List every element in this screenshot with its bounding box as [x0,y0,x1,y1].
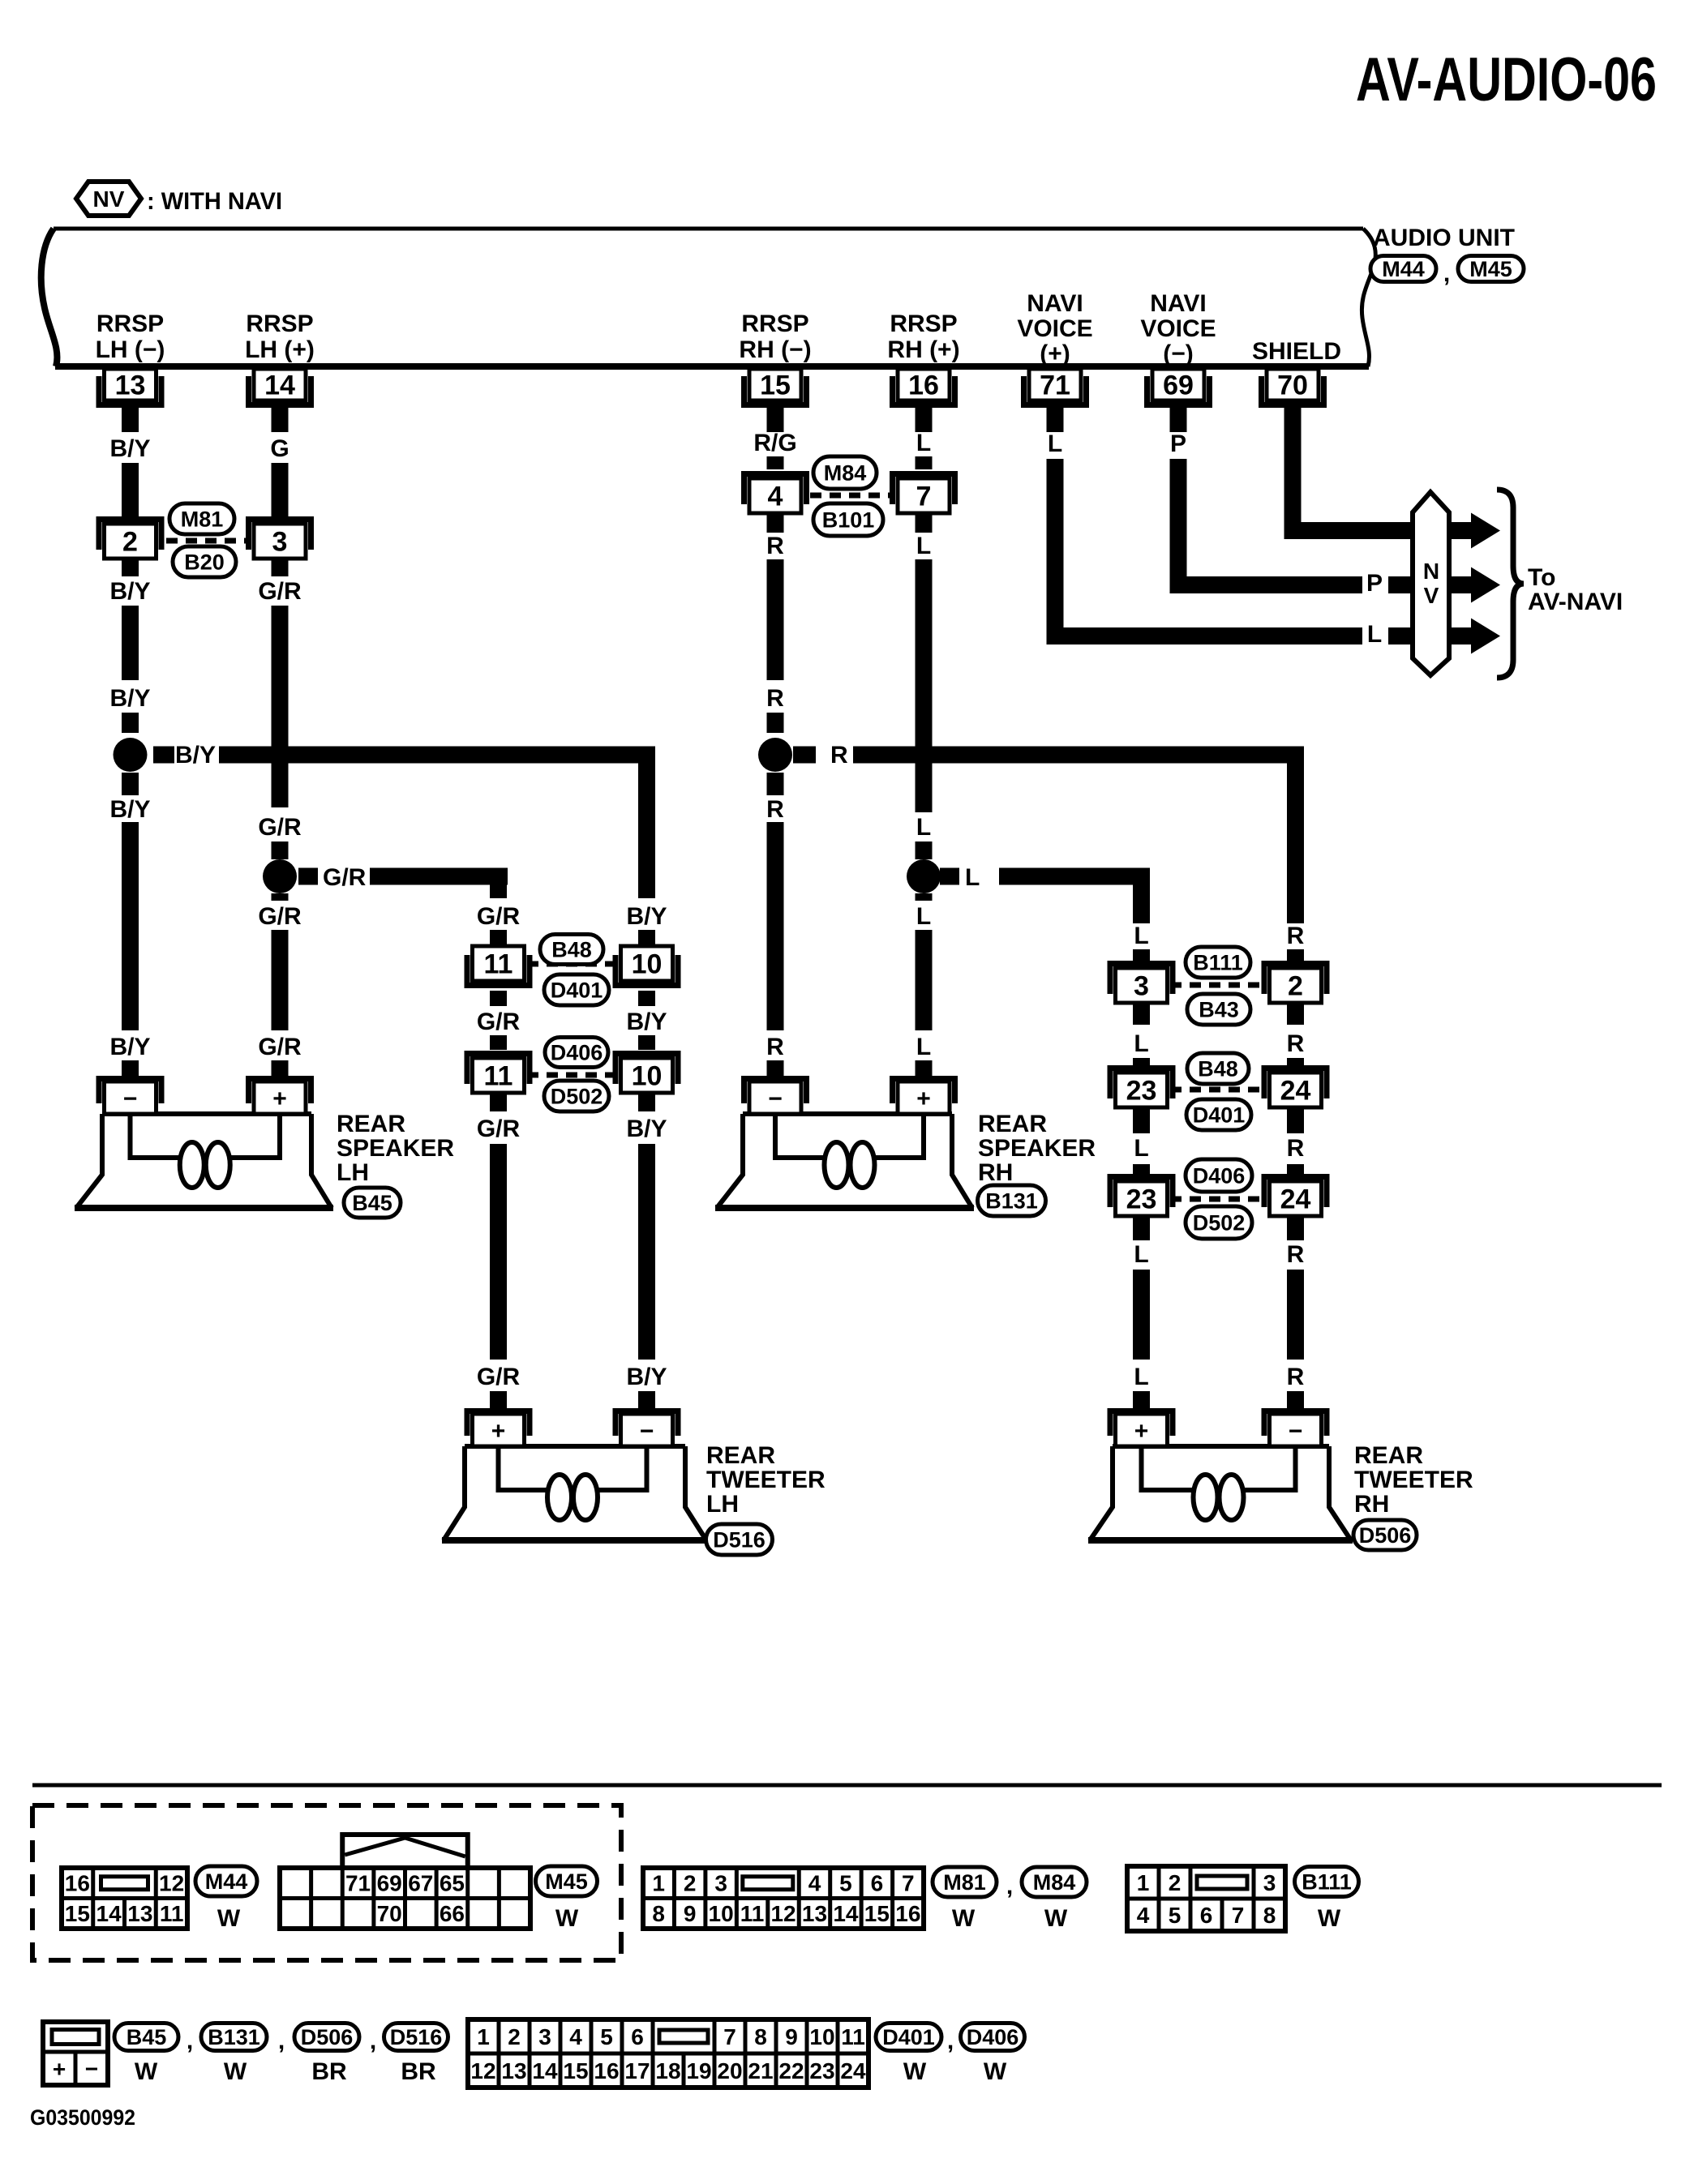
svg-text:70: 70 [1277,370,1308,401]
svg-text:2: 2 [122,527,138,558]
svg-text:24: 24 [840,2058,866,2083]
svg-text:TWEETER: TWEETER [1354,1467,1473,1493]
connector terminal 2 (B111/B43) [1262,961,1330,1003]
svg-text:D506: D506 [1359,1523,1412,1548]
svg-text:L: L [1134,1030,1148,1057]
junction node G/R [263,859,297,893]
svg-text:W: W [1044,1905,1068,1932]
comma between M81 M84 [1006,1873,1013,1899]
wire P stub into NV [1388,576,1416,593]
svg-text:W: W [984,2058,1007,2085]
wire L segment 8 [916,1060,933,1076]
svg-text:−: − [1289,1418,1303,1445]
wire B/Y conn2 segment 3 [122,559,139,576]
label BR (D516) [401,2058,436,2085]
label L [916,430,931,456]
svg-text:11: 11 [484,1061,513,1092]
wire B/Y segment 7 [122,822,139,1030]
wire B/Y pin13 segment 2 [122,463,139,516]
wire R below conn 24 lower [1287,1216,1304,1240]
wire B/Y branch horizontal [219,747,655,899]
svg-text:L: L [916,1034,931,1060]
svg-text:2: 2 [508,2024,521,2049]
label B/Y [109,685,150,712]
wire G pin14 segment 2 [272,463,289,516]
label W (B111) [1318,1905,1341,1932]
label R [766,533,784,559]
svg-text:G03500992: G03500992 [30,2105,135,2130]
connector label B131 legend [201,2023,267,2051]
svg-text:D401: D401 [1193,1103,1246,1128]
svg-text:2: 2 [1169,1870,1182,1895]
wire R segment 7 [767,822,784,1030]
arrow to AV-NAVI (shield) [1449,513,1500,549]
label G/R [258,1034,302,1060]
svg-text:B/Y: B/Y [626,1116,667,1142]
svg-text:B/Y: B/Y [175,742,216,769]
wire B/Y between connectors [638,991,655,1006]
wire B/Y segment 8 [122,1060,139,1076]
junction node B/Y [114,738,148,772]
svg-text:TWEETER: TWEETER [706,1467,826,1493]
svg-text:(+): (+) [1040,340,1070,367]
svg-text:R: R [1287,1364,1305,1390]
wire G/R segment 4 [272,606,289,807]
audio unit box outline [41,229,1376,366]
svg-text:L: L [965,864,980,891]
wire L segment 4 [916,559,933,812]
wire G/R segment 7 [272,930,289,1030]
svg-text:B111: B111 [1193,951,1243,975]
svg-text:6: 6 [871,1871,884,1896]
wire G pin14 segment 1 [272,400,289,432]
svg-text:5: 5 [600,2024,613,2049]
connector face M81/M84 [643,1868,924,1929]
svg-text:L: L [1134,1241,1148,1268]
svg-text:B48: B48 [1198,1057,1238,1081]
svg-text:13: 13 [501,2058,526,2083]
label REAR SPEAKER RH [978,1111,1096,1186]
svg-text:D406: D406 [551,1041,603,1065]
wire B/Y segment 6 [122,773,139,795]
svg-text:R: R [830,742,848,769]
svg-text:71: 71 [345,1871,371,1896]
label G/R [258,578,302,605]
wire L pin16 segment 1 [916,400,933,432]
connector face B111 [1127,1866,1285,1931]
svg-text:B45: B45 [352,1191,392,1215]
svg-text:−: − [768,1086,783,1112]
label W (M45) [555,1905,579,1932]
wire R segment 4 [767,559,784,680]
svg-text:W: W [1318,1905,1341,1932]
connector label D506 [1353,1520,1417,1550]
label W (M84) [1044,1905,1068,1932]
rear speaker RH (B131) [715,1076,974,1208]
svg-text:L: L [916,430,931,456]
connector label M44 legend [195,1866,257,1896]
svg-text:B/Y: B/Y [109,435,150,462]
svg-text:AUDIO UNIT: AUDIO UNIT [1373,225,1515,251]
svg-text:R: R [1287,923,1305,949]
svg-text:BR: BR [311,2058,347,2085]
svg-text:1: 1 [477,2024,490,2049]
svg-text:19: 19 [686,2058,711,2083]
separator line [32,1784,1662,1788]
junction node L [907,859,941,893]
svg-text:D502: D502 [1193,1211,1246,1235]
svg-text:+: + [1134,1418,1149,1445]
svg-text:NAVI: NAVI [1150,290,1206,317]
svg-text:W: W [217,1905,241,1932]
svg-text:6: 6 [631,2024,644,2049]
svg-text:,: , [187,2028,193,2054]
label G/R [258,903,302,930]
wire L segment 5 [916,841,933,859]
svg-text:13: 13 [802,1901,827,1926]
svg-text:RRSP: RRSP [246,310,313,337]
wire G/R segment 6 [272,893,289,901]
wire L to conn 23 [1133,1058,1150,1072]
label REAR SPEAKER LH [337,1111,454,1186]
svg-text:N: N [1423,559,1439,584]
svg-text:5: 5 [1169,1903,1182,1928]
connector label B20 [173,546,236,577]
connector label D401 rh [1186,1099,1251,1130]
label R [766,796,784,823]
label G/R [477,1008,521,1035]
svg-text:8: 8 [754,2024,767,2049]
svg-text:16: 16 [594,2058,619,2083]
wire G/R to conn 11 [490,1035,507,1050]
wire R long to tweeter [1287,1270,1304,1360]
wire G/R into terminal [490,1391,507,1409]
svg-text:4: 4 [569,2024,582,2049]
svg-text:6: 6 [1200,1903,1213,1928]
svg-text:V: V [1424,583,1439,608]
connector label B43 [1187,994,1250,1025]
label RRSP LH(+) [245,310,315,363]
svg-text:L: L [1048,430,1062,457]
svg-text:B43: B43 [1199,998,1239,1022]
svg-text:RRSP: RRSP [96,310,164,337]
label P [1366,570,1383,597]
label W (M44) [217,1905,241,1932]
svg-text:REAR: REAR [337,1111,405,1137]
connector label D502 [544,1081,609,1111]
svg-text:G: G [270,435,289,462]
label G/R [477,903,521,930]
svg-text:D406: D406 [1193,1164,1246,1188]
svg-text:B/Y: B/Y [109,578,150,605]
svg-text:14: 14 [96,1901,122,1926]
wire G/R segment 5 [272,841,289,859]
label BR (D506) [311,2058,347,2085]
svg-text:L: L [916,814,931,841]
svg-text:9: 9 [684,1901,697,1926]
wire L segment 7 [916,930,933,1030]
label W (B131) [224,2058,247,2085]
svg-text:11: 11 [740,1901,765,1926]
svg-text:13: 13 [115,370,146,401]
connector link dash 11-10 lower [527,1073,618,1078]
svg-text:B131: B131 [985,1189,1038,1214]
svg-text:P: P [1366,570,1383,597]
svg-text:D516: D516 [713,1528,766,1552]
svg-text:BR: BR [401,2058,436,2085]
wire L below conn 23 lower [1133,1216,1150,1240]
label NAVI VOICE(-) [1140,290,1216,367]
svg-text:R: R [766,796,784,823]
label G/R [323,864,367,891]
svg-text:NV: NV [93,186,125,212]
wire G/R long to tweeter [490,1144,507,1360]
svg-text:69: 69 [1163,370,1194,401]
svg-text:14: 14 [532,2058,558,2083]
svg-text:REAR: REAR [706,1442,775,1469]
svg-text:+: + [53,2056,66,2081]
svg-text:8: 8 [1263,1903,1276,1928]
svg-text:RH: RH [978,1159,1013,1186]
comma [278,2028,285,2054]
wire L segment 6 [916,893,933,901]
svg-text:SHIELD: SHIELD [1252,338,1341,365]
connector label M84 legend [1022,1867,1087,1897]
arrow to AV-NAVI (P) [1449,567,1500,603]
wire L below conn 23 [1133,1107,1150,1133]
connector label D406 [545,1038,608,1068]
svg-text:4: 4 [808,1871,821,1896]
connector terminal 10 (B48/D401) [613,946,681,988]
svg-text:SPEAKER: SPEAKER [337,1135,454,1162]
svg-text:23: 23 [1126,1076,1157,1107]
svg-text:,: , [1006,1873,1013,1899]
wire R branch segment [1287,949,1304,967]
svg-text:R: R [766,685,784,712]
connector label M45 legend [536,1866,598,1896]
svg-text:L: L [1134,923,1148,949]
wire R/G pin15 segment 1 [767,400,784,432]
connector label D401 legend [876,2023,941,2051]
label R [1287,1364,1305,1390]
wire L below conn 3 [1133,1003,1150,1025]
connector label M84 [813,456,877,489]
svg-text:5: 5 [839,1871,852,1896]
svg-text:D502: D502 [551,1085,603,1109]
label G/R [258,814,302,841]
svg-text:L: L [916,533,931,559]
label B/Y [109,578,150,605]
svg-text:R: R [1287,1241,1305,1268]
svg-text:AV-NAVI: AV-NAVI [1528,589,1623,615]
svg-text:D406: D406 [967,2025,1019,2049]
wire L long to tweeter [1133,1270,1150,1360]
svg-text:20: 20 [717,2058,742,2083]
svg-text:G/R: G/R [323,864,367,891]
label WITH NAVI [147,188,282,215]
svg-text:(−): (−) [1163,340,1194,367]
wire G/R between connectors [490,991,507,1006]
label RRSP LH(-) [96,310,165,363]
svg-text:16: 16 [908,370,939,401]
svg-text:3: 3 [272,527,288,558]
label B/Y [109,435,150,462]
svg-text:11: 11 [160,1901,184,1926]
svg-text:23: 23 [809,2058,834,2083]
wire R/G pin15 segment 2 [767,456,784,469]
svg-text:R/G: R/G [753,430,796,456]
svg-text:B/Y: B/Y [626,1008,667,1035]
connector label M45 [1458,256,1524,282]
comma between M44 M45 [1443,260,1450,287]
wire L stub into NV [1388,627,1416,644]
curly brace [1497,490,1524,678]
svg-text:NAVI: NAVI [1027,290,1083,317]
label G [270,435,289,462]
connector terminal 4 (M84/B101) [741,471,809,513]
label AUDIO UNIT [1373,225,1515,251]
wire B/Y branch stub [153,747,174,764]
svg-text:7: 7 [723,2024,736,2049]
svg-text:P: P [1170,430,1186,457]
svg-text:24: 24 [1280,1076,1311,1107]
connector terminal 11 (B48/D401) [465,946,533,988]
label W (D401) [903,2058,927,2085]
svg-text:M84: M84 [824,461,867,486]
connector terminal 3 (M81/B20) [246,516,314,559]
svg-text:: WITH NAVI: : WITH NAVI [147,188,282,215]
comma [370,2028,376,2054]
svg-text:B/Y: B/Y [626,1364,667,1390]
wire R to conn 24 [1287,1058,1304,1072]
label B/Y [109,1034,150,1060]
label R [1287,1241,1305,1268]
label B/Y [175,742,216,769]
wire R to conn 24 lower [1287,1164,1304,1180]
svg-text:To: To [1528,564,1555,591]
svg-text:G/R: G/R [258,814,302,841]
label L [916,903,931,930]
svg-text:SPEAKER: SPEAKER [978,1135,1096,1162]
connector terminal 23 (B48/D401) [1108,1065,1176,1107]
connector terminal 3 (B111/B43) [1108,961,1176,1003]
wire L pin16 segment 2 [916,456,933,469]
connector face M45 [280,1835,530,1929]
svg-text:23: 23 [1126,1184,1157,1215]
rear speaker LH (B45) [75,1076,333,1208]
label R [1287,1030,1305,1057]
junction node R [758,738,792,772]
label L [1134,1135,1148,1162]
pin 71 [1021,369,1089,408]
svg-text:RRSP: RRSP [890,310,957,337]
svg-text:B48: B48 [551,938,592,962]
wire G/R segment 8 [272,1060,289,1076]
svg-text:12: 12 [770,1901,796,1926]
connector link dash 3-2 [1170,983,1267,988]
svg-text:B/Y: B/Y [109,685,150,712]
connector link dash 2-3 [166,538,251,544]
connector terminal 11 (D406/D502) [465,1051,533,1093]
label W (B45) [135,2058,158,2085]
wire G/R below conn 11 [490,1093,507,1111]
wire R segment 8 [767,1060,784,1076]
svg-text:10: 10 [632,1061,663,1092]
svg-text:R: R [1287,1030,1305,1057]
svg-text:M81: M81 [943,1870,986,1895]
svg-text:LH (+): LH (+) [245,336,315,363]
wire B/Y long to tweeter [638,1144,655,1360]
svg-text:11: 11 [841,2024,865,2049]
connector terminal 2 (M81/B20) [96,516,165,559]
wire B/Y segment 4 [122,606,139,680]
svg-text:7: 7 [916,482,932,512]
wire L conn7 segment 3 [916,513,933,533]
svg-text:M84: M84 [1033,1870,1076,1895]
svg-text:17: 17 [624,2058,650,2083]
connector label B101 [813,503,883,536]
pin 14 [246,369,314,408]
connector link dash 4-7 [810,493,895,499]
connector label D401 [544,974,609,1005]
svg-text:RH (−): RH (−) [739,336,811,363]
wire L to conn 23 lower [1133,1164,1150,1180]
svg-text:D401: D401 [551,979,603,1003]
connector face speaker [43,2022,108,2085]
svg-text:R: R [766,1034,784,1060]
svg-text:M45: M45 [1469,257,1512,281]
svg-text:4: 4 [768,482,783,512]
connector label B45 [344,1188,401,1218]
wire R branch horizontal [853,747,1304,924]
svg-text:65: 65 [440,1871,465,1896]
svg-text:7: 7 [902,1871,915,1896]
svg-text:+: + [916,1086,931,1112]
label R [830,742,848,769]
svg-text:LH (−): LH (−) [96,336,165,363]
svg-text:3: 3 [1134,971,1149,1002]
svg-text:L: L [916,903,931,930]
connector label D502 rh [1186,1206,1252,1239]
connector terminal 10 (D406/D502) [613,1051,681,1093]
wire B/Y segment 5 [122,713,139,733]
rear tweeter LH (D516) [442,1408,708,1540]
svg-text:B45: B45 [127,2025,167,2049]
label L [1134,1241,1148,1268]
label L [965,864,980,891]
label L [1048,430,1062,457]
wire L branch stub [940,868,959,885]
svg-text:18: 18 [655,2058,680,2083]
svg-text:14: 14 [833,1901,859,1926]
connector label M81 legend [933,1867,997,1897]
svg-text:R: R [766,533,784,559]
connector label B48 [540,935,603,965]
svg-text:14: 14 [264,370,295,401]
svg-text:LH: LH [337,1159,369,1186]
svg-text:VOICE: VOICE [1017,315,1092,342]
arrow to AV-NAVI (L) [1449,619,1500,654]
label L [1134,1030,1148,1057]
svg-text:,: , [947,2028,954,2054]
label W (M81) [952,1905,976,1932]
svg-text:M81: M81 [181,507,224,532]
rear tweeter RH (D506) [1088,1408,1353,1540]
svg-text:L: L [1134,1364,1148,1390]
svg-text:70: 70 [377,1901,402,1926]
svg-text:VOICE: VOICE [1140,315,1216,342]
wire R into terminal [1287,1391,1304,1409]
